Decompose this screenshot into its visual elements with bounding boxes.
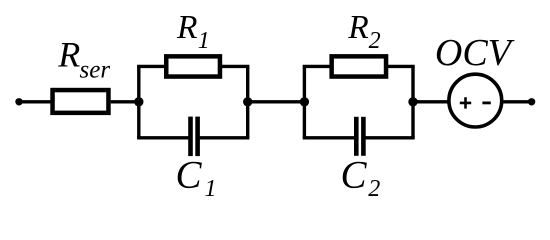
wire loop2 bottom branch [303,136,415,139]
wire R_ser to node A [111,100,139,103]
node D junction dot [408,97,417,106]
svg-text:OCV: OCV [435,32,515,74]
wire loop1 bottom branch [137,136,249,139]
wire loop1 right vertical [246,66,249,137]
wire left terminal to R_ser [19,100,53,103]
svg-text:ser: ser [80,57,111,84]
svg-text:2: 2 [368,176,380,202]
svg-text:C: C [341,154,368,197]
node C junction dot [300,97,309,106]
capacitor C1 [191,117,198,157]
wire loop1 top branch [137,65,249,68]
wire node D to OCV source [413,100,450,103]
wire OCV to right terminal [502,100,532,103]
plus sign inside OCV [460,97,471,108]
wire loop2 right vertical [411,66,414,137]
resistor R1 [166,56,220,76]
svg-text:2: 2 [369,28,381,54]
svg-text:C: C [176,154,203,197]
capacitor C2 [356,117,363,156]
voltage source OCV [449,74,502,127]
svg-text:R: R [57,35,80,75]
node A junction dot [134,97,143,106]
right terminal [528,98,535,105]
svg-text:1: 1 [198,28,210,54]
wire loop2 top branch [303,65,415,68]
wire loop1 left vertical [137,66,140,137]
wire node B to node C [248,100,305,103]
resistor R2 [332,56,386,76]
wire loop2 left vertical [303,66,306,137]
svg-text:R: R [176,9,197,46]
resistor R_ser [53,90,109,113]
node B junction dot [243,97,252,106]
left terminal [15,98,22,105]
svg-text:R: R [347,9,368,46]
minus sign inside OCV [482,102,490,105]
svg-text:1: 1 [205,176,217,202]
